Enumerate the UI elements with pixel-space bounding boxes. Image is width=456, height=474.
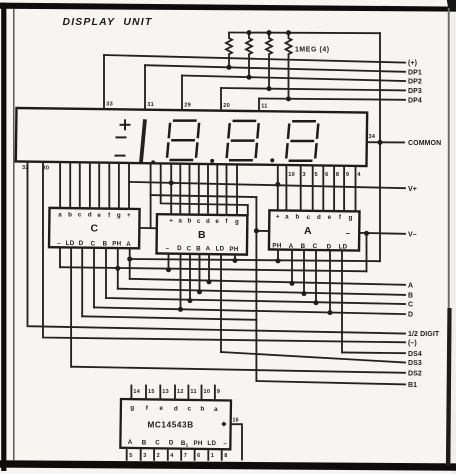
svg-text:–: –: [346, 229, 351, 238]
svg-text:V–: V–: [408, 231, 417, 238]
svg-text:b: b: [68, 211, 72, 218]
svg-text:a: a: [285, 214, 289, 221]
svg-text:DS2: DS2: [408, 370, 422, 377]
svg-text:C: C: [91, 240, 96, 247]
svg-text:1MEG (4): 1MEG (4): [295, 47, 330, 54]
svg-text:10: 10: [288, 172, 295, 178]
svg-text:5: 5: [129, 453, 132, 459]
svg-text:+: +: [127, 212, 131, 219]
svg-text:c: c: [307, 214, 311, 221]
svg-text:a: a: [214, 406, 218, 413]
svg-text:1/2 DIGIT: 1/2 DIGIT: [408, 331, 440, 338]
svg-text:DS4: DS4: [408, 351, 422, 358]
svg-text:a: a: [58, 211, 62, 218]
svg-text:34: 34: [369, 134, 376, 140]
svg-text:DP4: DP4: [408, 97, 422, 104]
svg-text:DP1: DP1: [408, 69, 422, 76]
svg-text:DP2: DP2: [408, 79, 422, 86]
svg-text:d: d: [174, 405, 178, 412]
svg-text:20: 20: [223, 103, 230, 109]
svg-text:A: A: [206, 246, 211, 253]
svg-text:11: 11: [261, 104, 268, 110]
svg-text:–: –: [223, 440, 227, 447]
svg-text:DISPLAY UNIT: DISPLAY UNIT: [63, 17, 153, 28]
svg-text:29: 29: [184, 103, 191, 109]
svg-text:g: g: [235, 218, 239, 225]
svg-text:LD: LD: [66, 240, 75, 247]
svg-text:COMMON: COMMON: [408, 140, 441, 147]
svg-text:a: a: [178, 218, 182, 225]
svg-text:D: D: [408, 312, 413, 319]
svg-text:D: D: [327, 243, 332, 250]
svg-text:10: 10: [204, 389, 211, 395]
svg-text:c: c: [187, 405, 191, 412]
svg-text:e: e: [97, 212, 101, 219]
svg-text:d: d: [317, 214, 321, 221]
svg-text:d: d: [206, 218, 210, 225]
svg-text:A: A: [126, 241, 131, 248]
svg-text:12: 12: [177, 389, 184, 395]
svg-text:A: A: [128, 439, 133, 446]
svg-text:B: B: [142, 439, 147, 446]
svg-text:(+): (+): [408, 60, 417, 67]
svg-text:c: c: [197, 218, 201, 225]
svg-text:A: A: [289, 243, 294, 250]
svg-text:PH: PH: [193, 440, 202, 447]
svg-text:+: +: [169, 217, 173, 224]
svg-text:6: 6: [197, 453, 200, 459]
svg-text:8: 8: [224, 453, 227, 459]
svg-text:B: B: [196, 245, 201, 252]
svg-text:D: D: [79, 240, 84, 247]
svg-text:LD: LD: [207, 440, 216, 447]
svg-text:b: b: [187, 218, 191, 225]
svg-text:31: 31: [147, 102, 154, 108]
svg-text:3: 3: [303, 172, 306, 178]
svg-text:e: e: [159, 405, 163, 412]
svg-text:13: 13: [162, 389, 169, 395]
svg-text:D: D: [177, 245, 182, 252]
svg-text:16: 16: [233, 418, 239, 424]
svg-text:c: c: [78, 212, 82, 219]
svg-text:g: g: [117, 212, 121, 219]
svg-text:B: B: [301, 243, 306, 250]
svg-text:e: e: [328, 214, 332, 221]
svg-text:C: C: [408, 302, 413, 309]
svg-text:B: B: [198, 229, 206, 241]
svg-text:15: 15: [148, 389, 155, 395]
svg-text:LD: LD: [216, 246, 225, 253]
svg-text:PH: PH: [229, 246, 238, 253]
svg-text:5: 5: [315, 172, 318, 178]
svg-text:C: C: [91, 223, 99, 235]
svg-text:9: 9: [346, 172, 349, 178]
svg-text:1: 1: [211, 453, 214, 459]
svg-text:7: 7: [184, 453, 187, 459]
svg-text:9: 9: [217, 389, 220, 395]
svg-text:b: b: [295, 214, 299, 221]
svg-text:(–): (–): [408, 340, 417, 347]
svg-text:4: 4: [357, 172, 361, 178]
svg-text:B: B: [408, 293, 413, 300]
svg-text:A: A: [304, 225, 312, 237]
svg-text:11: 11: [190, 389, 196, 395]
svg-text:14: 14: [133, 389, 140, 395]
svg-text:–: –: [57, 240, 61, 247]
svg-text:6: 6: [325, 172, 328, 178]
svg-text:PH: PH: [112, 241, 121, 248]
svg-text:+: +: [276, 213, 280, 220]
svg-text:e: e: [215, 218, 219, 225]
svg-text:g: g: [348, 214, 352, 221]
svg-text:PH: PH: [272, 243, 281, 250]
svg-text:b: b: [200, 406, 204, 413]
svg-text:33: 33: [106, 102, 113, 108]
svg-text:2: 2: [157, 453, 160, 459]
svg-text:DP3: DP3: [408, 88, 422, 95]
svg-text:B1: B1: [408, 382, 417, 389]
svg-text:C: C: [313, 243, 318, 250]
svg-text:MC14543B: MC14543B: [148, 420, 194, 429]
svg-text:8: 8: [336, 172, 339, 178]
svg-text:C: C: [155, 439, 160, 446]
svg-text:C: C: [187, 245, 192, 252]
svg-text:D: D: [169, 440, 174, 447]
svg-text:A: A: [408, 282, 413, 289]
svg-text:V+: V+: [408, 186, 417, 193]
svg-text:LD: LD: [339, 243, 348, 250]
svg-text:B: B: [103, 240, 108, 247]
svg-text:3: 3: [143, 453, 146, 459]
svg-text:d: d: [88, 212, 92, 219]
svg-text:–: –: [166, 245, 170, 252]
svg-text:g: g: [130, 405, 134, 412]
svg-text:DS3: DS3: [408, 360, 422, 367]
